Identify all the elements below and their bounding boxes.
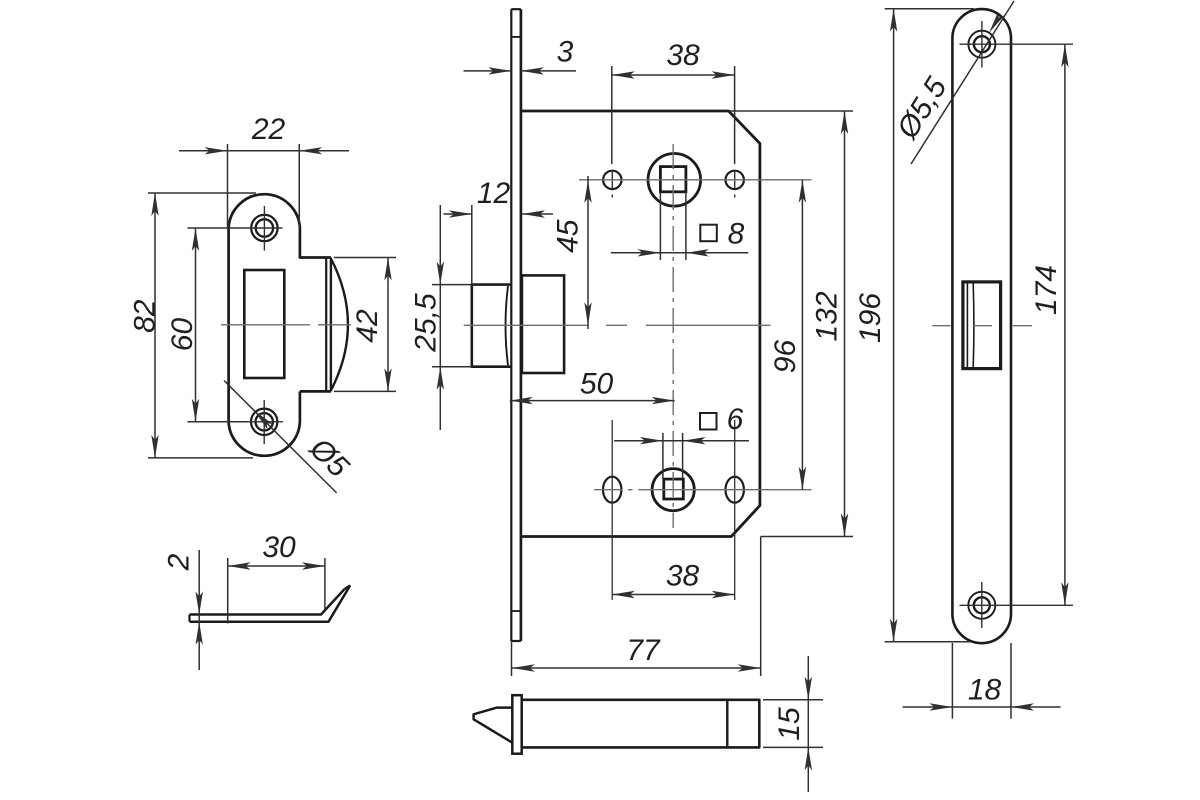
svg-text:38: 38 (666, 39, 700, 72)
lock body outline (521, 111, 760, 537)
dimension 196 (854, 9, 974, 642)
svg-text:45: 45 (552, 219, 585, 253)
svg-text:50: 50 (580, 367, 614, 400)
upper hub (648, 154, 701, 207)
strike plate cutout (244, 270, 284, 378)
dimension 2 (162, 550, 202, 670)
strike plate centerline (221, 324, 351, 326)
svg-text:22: 22 (251, 113, 286, 146)
dimension 60 (166, 228, 248, 422)
lower right screw slot (726, 420, 744, 600)
svg-text:132: 132 (810, 291, 843, 341)
dimension 45 (552, 176, 592, 329)
dimension 82 (129, 193, 256, 458)
svg-text:2: 2 (162, 553, 195, 571)
dimension 18 (903, 643, 1061, 719)
svg-text:42: 42 (351, 309, 384, 343)
faceplate front view outline (952, 9, 1011, 643)
dimension 77 (512, 537, 761, 677)
lower hub (652, 469, 694, 511)
svg-text:18: 18 (968, 673, 1002, 706)
svg-text:25,5: 25,5 (409, 293, 442, 353)
latch box inside body (522, 275, 564, 373)
svg-text:12: 12 (477, 177, 511, 210)
faceplate opening centerline (932, 325, 1032, 327)
dimension 38 bottom (612, 559, 735, 598)
faceplate top screw hole (960, 21, 1074, 68)
dimension square 8 (611, 192, 749, 260)
svg-text:77: 77 (626, 634, 661, 667)
dimension 96 (769, 180, 806, 490)
svg-text:82: 82 (129, 299, 162, 333)
latch centerline (464, 324, 771, 326)
dimension 22 (179, 113, 349, 228)
faceplate bottom screw hole (960, 582, 1074, 628)
dimension 50 (510, 367, 675, 404)
upper right screw hole (726, 170, 744, 198)
dimension 132 (729, 111, 853, 537)
svg-text:8: 8 (728, 217, 745, 250)
svg-text:15: 15 (773, 707, 806, 741)
svg-text:30: 30 (262, 531, 296, 564)
dimension 174 (1030, 44, 1069, 605)
bottom view latch bar (474, 695, 760, 754)
faceplate latch opening (963, 282, 1001, 369)
svg-text:174: 174 (1030, 265, 1063, 315)
upper hub centerline horizontal (579, 179, 812, 181)
svg-text:6: 6 (727, 403, 744, 436)
dust cover plate side view (190, 585, 351, 621)
latch bolt protruding (472, 285, 512, 367)
dimension square 6 (614, 403, 749, 479)
dimension 12 (444, 177, 554, 285)
svg-text:60: 60 (166, 318, 199, 352)
dimension 25,5 (409, 205, 471, 430)
dimension 42 (334, 258, 396, 392)
dimension 38 top (612, 39, 735, 164)
svg-text:3: 3 (557, 35, 574, 68)
hub vertical centerline (672, 144, 674, 528)
dimension 3 (464, 35, 577, 74)
svg-text:38: 38 (666, 559, 700, 592)
faceplate edge view (511, 9, 521, 641)
dimension 30 (228, 531, 325, 624)
leader diameter 5,5 (890, 1, 1014, 164)
svg-text:196: 196 (854, 293, 887, 343)
strike plate bottom screw hole (248, 400, 283, 444)
strike plate outline (229, 194, 348, 456)
lower left screw slot (603, 420, 621, 600)
leader diameter 5 (224, 381, 355, 493)
svg-text:96: 96 (769, 340, 802, 374)
upper left screw hole (603, 170, 621, 198)
strike plate top screw hole (249, 206, 283, 251)
dimension 15 (763, 656, 823, 792)
lower hub centerline horizontal (594, 489, 812, 491)
